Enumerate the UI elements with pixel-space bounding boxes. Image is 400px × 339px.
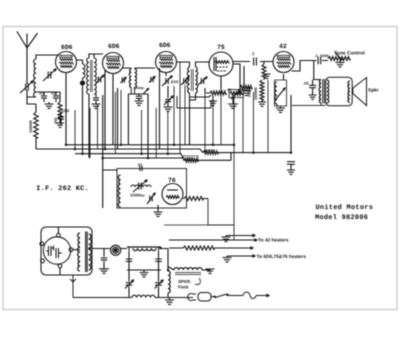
- screen cap: [58, 112, 64, 125]
- coupling capacitor .1: [254, 58, 257, 66]
- wire feeders to buses: [75, 62, 268, 158]
- label 10000 boxed: [184, 156, 199, 161]
- V4 cathode cap: [209, 96, 217, 105]
- power transformer core: [86, 232, 88, 273]
- output transformer primary: [319, 80, 321, 104]
- bus resistor C: [184, 159, 198, 163]
- bus wire C: [75, 154, 184, 161]
- bus wire D: [104, 157, 183, 159]
- filter ground: [140, 270, 149, 277]
- tube V5 42: [273, 52, 294, 73]
- tube V1 6D6: [56, 52, 77, 73]
- wire 42 plate: [292, 61, 329, 80]
- AC cord: [230, 292, 256, 298]
- wire V4 down: [221, 76, 240, 94]
- heater ground 1: [222, 236, 231, 242]
- wire T1 top: [89, 54, 103, 58]
- wire transformer top: [58, 227, 80, 275]
- oscillator ground: [154, 205, 163, 216]
- rectifier box: [41, 227, 92, 275]
- field ground: [206, 269, 215, 273]
- tube V2 6D6: [103, 53, 124, 74]
- svg-text:.01: .01: [137, 163, 142, 167]
- antenna trimmer capacitor: [20, 81, 33, 93]
- grid coil: [83, 64, 85, 78]
- resistor 510 vertical: [58, 102, 62, 120]
- T2 trimmer left: [121, 77, 127, 83]
- ground below T1: [92, 104, 101, 108]
- grid resistor 42 upper: [262, 62, 266, 81]
- 42 cathode ground: [276, 106, 285, 112]
- volume ground: [228, 98, 238, 109]
- svg-text:To 42 heaters: To 42 heaters: [258, 238, 289, 244]
- wire V4 plate right: [233, 64, 240, 90]
- svg-text:Tone Control: Tone Control: [334, 50, 365, 56]
- wire T3 down: [190, 93, 212, 145]
- antenna: [17, 32, 38, 85]
- oscillator box: [117, 169, 187, 209]
- heater ground 2: [223, 256, 232, 262]
- ground grid resistor: [264, 74, 271, 78]
- AVC line: [177, 96, 211, 108]
- filter box sides: [127, 247, 161, 270]
- antenna coil L1: [34, 59, 36, 97]
- svg-text:75: 75: [217, 44, 225, 51]
- svg-text:.02: .02: [51, 91, 57, 96]
- wire V1 plate down: [65, 73, 67, 145]
- svg-text:25000: 25000: [248, 86, 252, 97]
- power switch: [211, 294, 230, 298]
- plate bypass capacitor .02: [309, 80, 317, 100]
- svg-text:Spkr: Spkr: [368, 88, 379, 94]
- svg-text:100000: 100000: [29, 120, 33, 133]
- wire 42 down: [277, 74, 284, 106]
- lamp cap: [101, 249, 107, 269]
- wire T1 down: [88, 94, 90, 158]
- grid cap junction dot: [80, 80, 85, 85]
- field coil left winding: [168, 271, 170, 293]
- V3 avc arrow: [164, 96, 173, 105]
- filter choke 2: [132, 295, 155, 297]
- speaker field coil: [174, 268, 202, 270]
- wire filter to heaters: [164, 224, 234, 226]
- grid leak resistor 250M: [258, 80, 266, 106]
- svg-text:.01: .01: [39, 91, 45, 96]
- svg-text:500M: 500M: [320, 54, 329, 58]
- bus wire B right: [218, 152, 291, 154]
- diode load resistor: [210, 91, 226, 95]
- wire primary bottom: [292, 103, 326, 105]
- oscillator feed wire: [103, 95, 117, 208]
- svg-text:6D6: 6D6: [61, 44, 73, 51]
- svg-text:6D6: 6D6: [108, 43, 120, 50]
- tuning capacitor C1: [43, 69, 56, 81]
- interlock plug: [188, 293, 211, 302]
- resistor B decoupling: [240, 86, 252, 90]
- IF transformer T2 secondary: [135, 69, 137, 88]
- junction dots: [65, 144, 293, 272]
- svg-text:250000: 250000: [254, 87, 258, 100]
- field label arrow: [195, 278, 200, 285]
- oscillator tuning coil: [131, 185, 151, 187]
- heater arrow 1: [226, 234, 255, 237]
- filter capacitor 3: [125, 270, 134, 298]
- tone control resistor: [328, 57, 350, 61]
- wire rectifier to filter: [92, 248, 127, 250]
- IF transformer T1 primary: [87, 58, 89, 94]
- svg-text:Model 982006: Model 982006: [315, 214, 368, 222]
- capacitor .01: [41, 92, 47, 102]
- 42 cathode box: [275, 80, 287, 106]
- wire 76 to heater rail: [208, 145, 234, 240]
- oscillator tuning capacitor: [133, 180, 147, 192]
- AC cord arrow: [256, 294, 269, 297]
- output transformer core: [323, 79, 325, 104]
- IF transformer T1 secondary: [94, 58, 96, 94]
- oscillator padder: [147, 193, 155, 204]
- wire V2 plate down: [105, 70, 113, 150]
- 76 plate resistor: [183, 197, 208, 201]
- bus wire B: [36, 149, 203, 153]
- svg-text:6D6: 6D6: [159, 42, 171, 49]
- volume control: [229, 90, 244, 98]
- IF transformer T1 core: [91, 60, 93, 92]
- capacitor below T2: [135, 89, 149, 106]
- 42 bias arrow: [276, 88, 285, 99]
- bottom rail ground: [165, 298, 174, 305]
- svg-text:United Motors: United Motors: [316, 204, 374, 212]
- oscillator coil: [118, 175, 120, 207]
- filter capacitor 2: [155, 252, 162, 270]
- wire grid row: [36, 91, 60, 93]
- filter capacitor at B: [287, 162, 295, 175]
- output transformer box: [326, 77, 353, 106]
- heater arrow 3: [227, 255, 255, 258]
- speaker Spkr: [353, 78, 367, 106]
- power transformer primary coil: [78, 233, 80, 271]
- power transformer secondary coil: [89, 234, 92, 270]
- capacitor below T1: [93, 94, 99, 104]
- left bleeder resistor: [27, 97, 38, 149]
- svg-text:Field: Field: [178, 285, 189, 290]
- wire rect box down: [70, 275, 76, 298]
- svg-text:SPKR.: SPKR.: [178, 279, 191, 284]
- heater arrow 2: [169, 239, 257, 242]
- T2 trimmer right: [149, 77, 155, 83]
- wire T2 down: [128, 94, 148, 158]
- wire bottom rail: [73, 297, 193, 299]
- IF transformer T3 primary: [187, 67, 189, 93]
- wire antenna to coil L1: [27, 90, 36, 97]
- ground B decoupling: [242, 90, 251, 96]
- filter choke 1: [127, 246, 161, 248]
- wire V3 down: [160, 68, 167, 149]
- wire T2 bottom: [128, 88, 148, 95]
- svg-text:250: 250: [54, 118, 58, 124]
- wire grid cap down: [82, 78, 84, 154]
- IF transformer T2 primary: [129, 69, 131, 88]
- svg-text:10000ω: 10000ω: [130, 193, 145, 198]
- heater resistor line: [169, 246, 253, 250]
- wire 75 plate to 42 grid: [233, 61, 273, 63]
- filter capacitor 1: [126, 252, 132, 270]
- 42 cathode coil: [275, 82, 277, 104]
- svg-text:10000: 10000: [206, 149, 215, 153]
- oscillator top capacitor: [140, 166, 142, 171]
- svg-text:76: 76: [168, 177, 176, 184]
- svg-text:42: 42: [279, 43, 287, 50]
- svg-text:Comp: Comp: [134, 86, 145, 90]
- wire B plus vertical: [290, 95, 292, 153]
- T1 trimmer: [96, 75, 105, 84]
- T3 trimmer right: [198, 77, 207, 85]
- bus wire C right: [198, 153, 231, 161]
- IF transformer T3 secondary: [196, 67, 198, 93]
- svg-text:To 6D6,75&76 heaters: To 6D6,75&76 heaters: [257, 254, 307, 260]
- V3 cathode trimmer: [162, 76, 172, 86]
- IF transformer T3 core: [191, 69, 193, 91]
- bus wire A: [66, 144, 234, 146]
- capacitor .02: [53, 92, 59, 102]
- field core: [175, 273, 201, 275]
- svg-text:β1Ω: β1Ω: [171, 80, 178, 84]
- tube V4 75: [209, 52, 233, 76]
- bus resistor B2: [203, 151, 218, 155]
- ground below L1: [45, 102, 54, 108]
- rectifier tube V7: [40, 233, 73, 267]
- filter capacitor 4: [155, 270, 164, 298]
- lamp ground: [99, 269, 109, 273]
- output transformer voice coil: [348, 81, 350, 103]
- svg-text:.02: .02: [303, 81, 309, 86]
- output transformer secondary: [327, 80, 329, 103]
- tube V3 6D6: [156, 52, 177, 73]
- T3 trimmer left: [181, 77, 189, 85]
- svg-text:I.F. 262 KC.: I.F. 262 KC.: [36, 185, 89, 193]
- tube V6 76: [162, 184, 183, 205]
- tone control ground: [336, 61, 345, 67]
- svg-text:10000: 10000: [185, 157, 194, 161]
- pilot lamp: [111, 245, 121, 255]
- V3 cathode cap: [164, 86, 173, 111]
- tone capacitor .01: [318, 57, 321, 64]
